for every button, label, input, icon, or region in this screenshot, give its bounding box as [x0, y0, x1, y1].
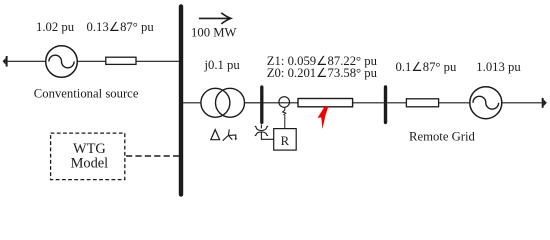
svg-text:Z0: 0.201∠73.58° pu: Z0: 0.201∠73.58° pu [267, 66, 378, 80]
svg-text:1.02 pu: 1.02 pu [36, 20, 75, 34]
svg-text:j0.1 pu: j0.1 pu [204, 58, 241, 72]
svg-text:Model: Model [71, 155, 109, 171]
svg-text:1.013 pu: 1.013 pu [476, 60, 521, 74]
svg-text:R: R [281, 134, 290, 148]
svg-text:0.13∠87° pu: 0.13∠87° pu [87, 20, 155, 34]
svg-text:Conventional source: Conventional source [34, 87, 139, 101]
svg-text:0.1∠87° pu: 0.1∠87° pu [396, 60, 458, 74]
svg-text:100 MW: 100 MW [191, 25, 236, 39]
svg-text:Remote Grid: Remote Grid [409, 130, 476, 144]
